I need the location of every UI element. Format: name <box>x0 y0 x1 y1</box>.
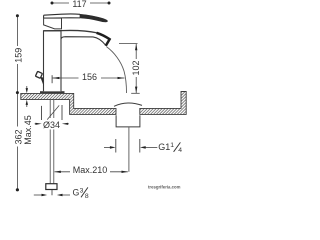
flexible hose <box>49 129 51 184</box>
svg-text:tresgriferia.com: tresgriferia.com <box>148 185 181 190</box>
svg-text:Max.210: Max.210 <box>73 165 108 175</box>
drain center line <box>128 127 130 172</box>
svg-text:Max.45: Max.45 <box>23 115 33 145</box>
svg-text:8: 8 <box>85 193 89 200</box>
svg-text:362: 362 <box>13 129 23 144</box>
dimension G 3/8 <box>34 194 42 196</box>
small knob on column left <box>35 71 42 78</box>
dimension 102 <box>135 44 137 93</box>
svg-text:159: 159 <box>14 48 24 63</box>
dimension O34 <box>41 106 43 120</box>
deck lower slab right of drain hole + right wall <box>140 92 186 115</box>
water stream arc <box>107 47 127 93</box>
svg-text:G1: G1 <box>158 142 170 152</box>
dimension Max.210 <box>55 171 128 173</box>
svg-text:102: 102 <box>131 60 141 75</box>
dimension 156 <box>52 77 124 79</box>
spout outer curve <box>44 30 97 32</box>
dimension Max.45 (deck thickness) <box>26 86 28 107</box>
handle base cap <box>44 18 62 29</box>
spout open tip (thick cut) <box>97 33 110 46</box>
handle lever: left white part <box>44 14 80 18</box>
supply pipes <box>49 100 51 118</box>
svg-text:1: 1 <box>170 142 174 149</box>
faucet body column <box>44 31 62 91</box>
faucet flange/base <box>40 91 65 93</box>
svg-text:G: G <box>73 187 80 197</box>
svg-text:156: 156 <box>82 72 97 82</box>
slanted reference line <box>47 105 59 119</box>
handle lever: right thick part <box>80 14 107 22</box>
nut stub <box>51 190 53 195</box>
svg-text:117: 117 <box>72 0 86 9</box>
svg-text:3: 3 <box>80 187 84 194</box>
svg-text:Ø34: Ø34 <box>43 120 60 130</box>
G3/8 nut <box>46 184 57 190</box>
dimension G1 1/4 <box>115 139 117 153</box>
left dimension line 159/362 <box>16 16 18 190</box>
spout underside <box>61 37 106 46</box>
pop-up waste cap <box>114 103 142 106</box>
counter deck left slab with step (hatched cross-section) <box>21 92 186 115</box>
waste body under deck <box>116 115 140 127</box>
dimension 117 (top) <box>52 2 109 4</box>
svg-text:4: 4 <box>178 147 182 154</box>
